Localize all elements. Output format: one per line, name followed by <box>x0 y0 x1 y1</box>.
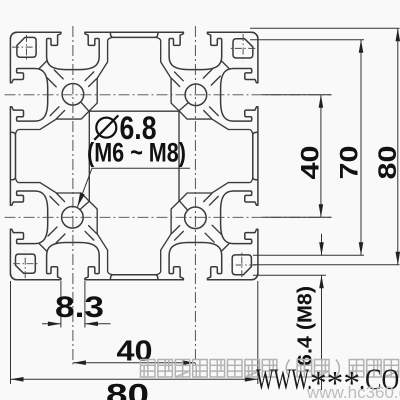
dimension line 6.4 upper segment <box>321 234 323 256</box>
extension line 8.3 right <box>84 281 86 328</box>
central cavity left wall <box>88 111 90 202</box>
diameter symbol circle <box>96 118 116 138</box>
extension line 70 right top <box>250 39 364 41</box>
extension line 80 right top <box>250 27 400 29</box>
dimension line 70 right <box>360 40 362 256</box>
svg-text:80: 80 <box>106 378 149 400</box>
svg-text:WWW.: WWW. <box>256 363 312 396</box>
profile quadrant rotated 90 deg <box>172 32 258 279</box>
extension line 6.4 bottom <box>253 274 326 276</box>
arrowhead 70 right top <box>359 40 364 53</box>
extension line 70 right bottom <box>253 254 364 256</box>
arrowhead 40 right top <box>319 95 324 108</box>
leader line to core hole <box>78 168 191 207</box>
dimension line 6.4 lower segment <box>321 275 323 390</box>
profile quadrant rotated 270 deg <box>10 32 96 279</box>
svg-text:6.4 (M8): 6.4 (M8) <box>295 286 317 366</box>
arrowhead 80 bottom left <box>11 377 24 382</box>
extension line 80 bottom left <box>10 281 12 384</box>
svg-text:(M6 ~ M8): (M6 ~ M8) <box>87 137 186 167</box>
svg-text:8.3: 8.3 <box>55 291 104 324</box>
centerline vertical right slots <box>194 26 196 365</box>
central cavity top wall <box>89 110 179 112</box>
dimension line 80 bottom <box>11 378 258 380</box>
extension line solid for dim 40 top <box>262 94 332 96</box>
arrowhead 40 bottom left <box>73 360 86 365</box>
extension line 8.3 left <box>60 281 62 328</box>
centerline horizontal lower slots <box>5 216 332 218</box>
svg-text:40: 40 <box>297 146 325 180</box>
arrowhead 8.3 left <box>48 322 61 327</box>
centerline horizontal upper slots <box>5 94 332 96</box>
arrowhead 80 right top <box>396 28 400 41</box>
arrowhead 80 bottom right <box>245 377 258 382</box>
watermark chinese company name (stylized) <box>141 360 399 378</box>
leader arrowhead <box>75 193 85 208</box>
dimension line 40 bottom <box>73 362 195 364</box>
central cavity right wall <box>178 111 180 202</box>
dimension line 40 right <box>320 95 322 218</box>
diameter symbol slash <box>94 115 118 139</box>
svg-text:www.hc360.c: www.hc360.c <box>306 383 400 400</box>
arrowhead 8.3 right <box>85 322 98 327</box>
svg-text:80: 80 <box>374 146 400 180</box>
extension line 80 right bottom <box>253 264 400 266</box>
dimension line 8.3 left tail <box>42 323 61 325</box>
extension line 80 bottom right <box>257 281 259 384</box>
arrowhead 80 right bottom <box>396 252 400 265</box>
arrowhead 40 right bottom <box>319 204 324 217</box>
dimension line 8.3 right tail <box>85 323 111 325</box>
arrowhead 40 bottom right <box>182 360 195 365</box>
svg-text:70: 70 <box>336 146 364 180</box>
arrowhead 6.4 bottom <box>319 275 324 288</box>
arrowhead 6.4 top <box>319 242 324 255</box>
arrowhead 70 right bottom <box>359 242 364 255</box>
centerline vertical left slots <box>72 26 74 365</box>
extension line solid for dim 40 bottom <box>262 216 332 218</box>
dimension line 80 right <box>397 28 399 264</box>
profile quadrant rotated 180 deg <box>11 193 258 279</box>
